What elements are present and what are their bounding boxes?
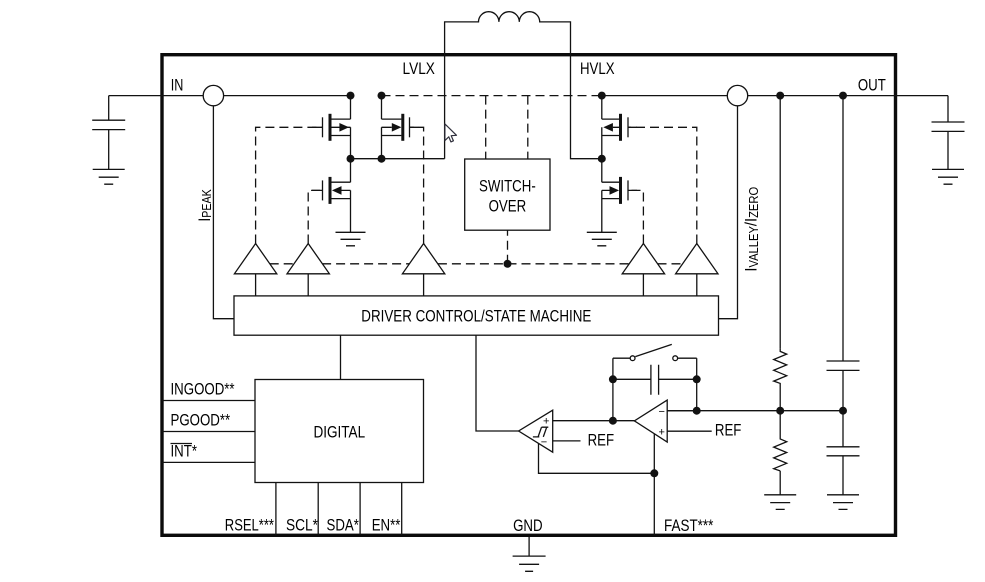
wire pin EN: [401, 483, 403, 536]
wire C2 to ground: [842, 456, 844, 495]
wire A7 - input: [667, 410, 697, 412]
wire A6 - input to REF: [553, 440, 581, 442]
svg-text:OUT: OUT: [858, 75, 886, 94]
wire error sense: [667, 410, 843, 412]
amp A5: [676, 244, 718, 274]
transistor M5 (right low-side FET): [602, 159, 628, 233]
svg-text:INGOOD**: INGOOD**: [171, 380, 235, 399]
wire pin PGOOD: [162, 431, 255, 433]
svg-text:RSEL***: RSEL***: [225, 515, 274, 534]
svg-text:EN**: EN**: [372, 515, 401, 534]
ground (COUT): [932, 169, 964, 184]
DRIVER CONTROL/STATE MACHINE block: [234, 296, 719, 335]
transistor M3 (left low-side FET): [323, 159, 351, 233]
wire A6 feedback bottom: [539, 443, 655, 473]
transistor M1 (left high-side FET): [323, 96, 351, 159]
wire pin SCL: [317, 483, 319, 536]
transistor M2 (left high-side FET B, mirrored): [382, 96, 410, 159]
amp A3: [402, 244, 444, 274]
comparator A6 (hysteresis): [519, 410, 553, 452]
svg-text:LVLX: LVLX: [403, 59, 435, 78]
amp A4: [622, 244, 664, 274]
svg-text:IN: IN: [171, 75, 184, 94]
svg-text:HVLX: HVLX: [580, 59, 615, 78]
node dot FAST junction: [650, 469, 658, 477]
node dots feedback: [609, 375, 617, 383]
resistor R2: [774, 437, 787, 471]
capacitor C1: [827, 361, 860, 370]
gate route M1 to amp A1 (dashed): [256, 127, 323, 243]
wire switch-over top feeds (dashed): [486, 96, 528, 159]
node dots LVLX/HVLX rails: [347, 92, 355, 100]
svg-text:SWITCH-: SWITCH-: [479, 177, 536, 196]
capacitor CIN: [92, 96, 125, 170]
gate route M5 to amp A4 (dashed): [628, 190, 643, 243]
wire OUT internal: [602, 95, 728, 97]
node dots OUT rail: [776, 92, 784, 100]
svg-text:PGOOD**: PGOOD**: [171, 411, 231, 430]
ground (GND pin): [513, 537, 546, 571]
switch S1: [613, 344, 697, 358]
wire output cap rail: [842, 96, 844, 361]
svg-text:−: −: [541, 436, 547, 448]
svg-text:SCL*: SCL*: [286, 515, 318, 534]
pin circle IN: [203, 85, 223, 105]
ground (CIN): [93, 169, 125, 184]
wire driver to digital: [340, 335, 342, 379]
gate route M4 to amp A5 (dashed): [628, 127, 697, 243]
ground (M3): [336, 232, 366, 246]
svg-text:−: −: [658, 406, 664, 418]
amp A1: [234, 244, 276, 274]
SWITCH-OVER block: [465, 159, 550, 230]
wire feedback right rail: [696, 358, 698, 411]
wire OUT sense to driver: [719, 106, 738, 319]
gate route M3 to amp A2 (dashed): [308, 190, 322, 243]
svg-text:SDA*: SDA*: [327, 515, 360, 534]
IC boundary box: [162, 55, 896, 536]
wire pin RSEL: [275, 483, 277, 536]
wire driver to comparator A6: [476, 335, 519, 431]
wire pin SDA: [359, 483, 361, 536]
wire IN external: [109, 95, 204, 97]
svg-text:IVALLEY/IZERO: IVALLEY/IZERO: [743, 187, 761, 272]
wire OUT to external cap: [748, 95, 948, 97]
svg-text:+: +: [658, 427, 664, 439]
wire C1-C2: [842, 370, 844, 446]
inductor L1 with LVLX/HVLX leads: [445, 12, 602, 159]
svg-text:DIGITAL: DIGITAL: [314, 422, 366, 441]
svg-text:DRIVER CONTROL/STATE MACHINE: DRIVER CONTROL/STATE MACHINE: [361, 307, 591, 326]
hysteresis glyph (A6): [533, 427, 548, 437]
wire feedback left rail: [612, 358, 614, 421]
capacitor C3 (integrator): [613, 365, 697, 395]
wire switch-over stem (dashed): [507, 230, 509, 264]
resistor R1: [774, 349, 787, 385]
wire A7 + input to REF: [667, 430, 712, 432]
wire FAST pin: [653, 434, 655, 536]
ground (M5): [587, 232, 617, 246]
wire IPEAK sense: [213, 106, 234, 319]
comparator A7 (error amp): [634, 400, 667, 442]
wire gate stubs (solid): [312, 127, 637, 190]
wire A6 + input: [553, 420, 635, 422]
ground (R2): [764, 495, 796, 510]
svg-text:INT*: INT*: [171, 441, 198, 460]
wire LVLX mid: [351, 158, 445, 160]
svg-text:OVER: OVER: [489, 197, 527, 216]
wire dashed top bus: [382, 95, 602, 97]
wire pin INT: [162, 461, 255, 463]
amp output stems: [256, 274, 697, 296]
svg-text:REF: REF: [715, 421, 742, 440]
svg-text:FAST***: FAST***: [664, 516, 714, 535]
ground (C2): [827, 495, 859, 510]
svg-text:REF: REF: [588, 430, 615, 449]
transistor M4 (right high-side FET, mirrored): [602, 96, 628, 159]
wire R2 to ground: [779, 471, 781, 495]
gate route M2 to amp A3 (dashed): [410, 127, 424, 243]
wire R1-R2: [779, 385, 781, 437]
wire feedback divider rail: [779, 96, 781, 349]
DIGITAL block: [255, 380, 424, 483]
dashed control bus segments: [270, 263, 294, 265]
pin circle OUT: [727, 85, 747, 105]
svg-text:GND: GND: [513, 516, 543, 535]
capacitor COUT: [932, 96, 965, 170]
amp A2: [287, 244, 329, 274]
svg-text:+: +: [543, 416, 549, 428]
wire IN internal: [224, 95, 351, 97]
mouse cursor: [445, 124, 457, 142]
wire pin INGOOD: [162, 400, 255, 402]
node dot switch-over/bus: [504, 260, 512, 268]
svg-text:IPEAK: IPEAK: [196, 189, 215, 221]
capacitor C2: [827, 447, 860, 456]
